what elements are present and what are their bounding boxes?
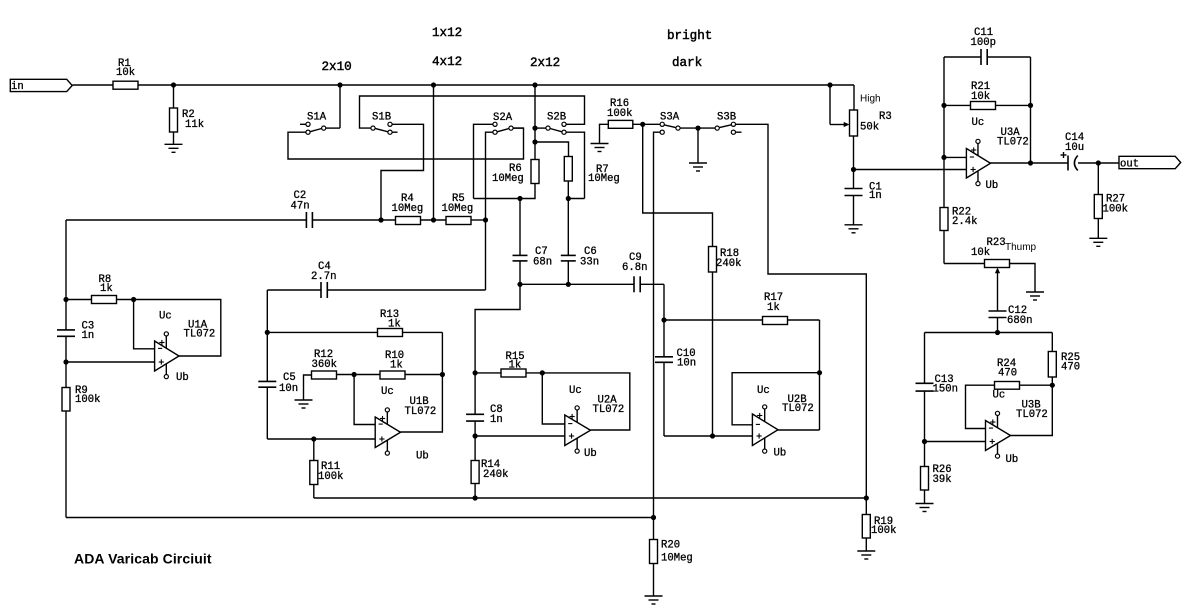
svg-text:out: out (1120, 158, 1139, 170)
resistor R21 (971, 81, 996, 110)
svg-text:2x12: 2x12 (530, 56, 560, 70)
ground under R2 (165, 144, 183, 152)
svg-text:1k: 1k (509, 360, 522, 372)
wire: left column from C2 row down to lower rail (65, 220, 67, 518)
svg-text:in: in (11, 81, 24, 93)
capacitor C13 (916, 374, 958, 396)
junction node R10 right (440, 372, 445, 377)
wire: R23 right end to ground (1010, 264, 1036, 293)
junction node R8 right (131, 297, 136, 302)
wire: C4 row (267, 290, 485, 332)
resistor R12 (312, 349, 337, 379)
svg-text:Thump: Thump (1005, 242, 1037, 253)
wire: R13/R10 right node down to U1B output (401, 332, 443, 432)
resistor R9 (62, 385, 100, 411)
wire: R13 row from left column node (267, 331, 442, 333)
junction node R1/R2 on top bus (171, 82, 176, 87)
op-amp U2A (565, 385, 624, 460)
svg-text:11k: 11k (185, 119, 204, 131)
wire: R4-R5 series links (421, 219, 486, 221)
svg-text:2x10: 2x10 (322, 60, 352, 74)
resistor R11 (310, 461, 344, 485)
svg-text:150n: 150n (933, 384, 958, 396)
resistor R16 (607, 98, 633, 128)
switch S3A (660, 112, 680, 135)
svg-text:100p: 100p (971, 37, 996, 49)
svg-text:47n: 47n (291, 200, 310, 212)
wire: S1B lower throw open stub (392, 131, 397, 133)
resistor R17 (763, 292, 788, 325)
wire: R12-R10 row, U1B inverting branch (337, 375, 443, 425)
capacitor C1 (845, 182, 882, 203)
junction node R18 bottom / U2B non-inv (710, 433, 715, 438)
ground under R20 (645, 596, 663, 604)
junction node R15 right (540, 370, 545, 375)
ground under R26 (916, 504, 934, 512)
wire: R21 leads (944, 104, 1031, 106)
wire: R19 branch to ground (865, 498, 867, 551)
wire: R23 wiper down through C12 to U3B top row (997, 273, 999, 333)
ground under R19 (857, 551, 875, 559)
wire: U1A non-inverting input row (66, 361, 155, 363)
net label bright (667, 29, 712, 43)
svg-text:6.8n: 6.8n (622, 262, 647, 274)
capacitor C6 (561, 246, 599, 269)
wire: left branch C13 down to U3B non-inverting node and R26 (925, 333, 986, 504)
capacitor C7 (513, 246, 553, 269)
resistor R1 (113, 58, 138, 89)
capacitor C8 (466, 404, 503, 426)
wire: U3B top row C12 node (925, 332, 1053, 334)
svg-text:1k: 1k (390, 360, 403, 372)
capacitor C11 (971, 27, 996, 65)
svg-text:R3: R3 (879, 111, 892, 123)
wire: R2 branch from top bus down to ground (173, 85, 175, 144)
resistor R2 (170, 108, 205, 132)
svg-text:Ub: Ub (986, 180, 999, 192)
net label 2x10 (322, 60, 352, 74)
svg-text:TL072: TL072 (405, 406, 437, 418)
resistor R5 (442, 193, 474, 225)
wire: R16 left lead to ground (600, 124, 609, 143)
svg-text:470: 470 (998, 368, 1017, 380)
svg-text:Uc: Uc (569, 385, 582, 397)
wire: S1A right contact up to top bus at node 2x10 (326, 85, 340, 128)
net label 2x12 (530, 56, 560, 70)
svg-text:S2B: S2B (547, 112, 566, 124)
svg-text:1x12: 1x12 (432, 26, 462, 40)
resistor R10 (380, 350, 405, 379)
capacitor C12 (989, 305, 1033, 327)
wire: S3A common to grounded node to S3B pole (680, 128, 715, 163)
potentiometer R3 High (844, 94, 892, 137)
wire: R7 top branch from 2x12 vertical (535, 142, 569, 157)
resistor R24 (995, 358, 1020, 389)
capacitor C4 (311, 261, 336, 298)
svg-text:High: High (860, 94, 881, 105)
wire: C2 input row from left column to R4 (66, 219, 396, 221)
svg-text:10k: 10k (971, 91, 990, 103)
svg-text:Uc: Uc (993, 390, 1006, 402)
svg-text:100k: 100k (871, 525, 896, 537)
junction node R15 left (473, 370, 478, 375)
svg-text:Ub: Ub (1006, 454, 1019, 466)
resistor R14 (471, 459, 508, 484)
junction node C7 bottom (517, 282, 522, 287)
wire: R17 right node down to U2B output and feedback loop (732, 320, 819, 430)
op-amp U1A (155, 311, 216, 385)
wire: main vertical from 4x12 node down to R4/R5 node (433, 85, 435, 220)
wire: U3A inverting input (944, 156, 966, 158)
svg-text:1n: 1n (490, 414, 503, 426)
svg-text:Ub: Ub (416, 451, 429, 463)
junction node R21 right (1028, 103, 1033, 108)
resistor R26 (921, 464, 952, 490)
wire: S2A upper throw left and down to R6 bottom row (474, 124, 493, 198)
wire: R16 right node to S3A upper throw (633, 123, 660, 125)
svg-text:360k: 360k (312, 359, 337, 371)
wire: R8 row and U1A feedback loop (66, 300, 221, 357)
junction node R3/C1 (851, 167, 856, 172)
svg-text:TL072: TL072 (997, 137, 1029, 149)
resistor R27 (1094, 194, 1128, 219)
wire: input net from in port to R1 and main top bus (73, 85, 855, 110)
svg-text:10Meg: 10Meg (392, 203, 424, 215)
wire: C7 row to R15 left node (475, 284, 520, 373)
ground under R27 (1089, 238, 1107, 246)
svg-text:68n: 68n (533, 257, 552, 269)
svg-text:240k: 240k (716, 258, 741, 270)
junction node C10 top / R17 left (661, 317, 666, 322)
svg-text:4x12: 4x12 (432, 55, 462, 69)
wire: C10 vertical and U2B non-inverting row (664, 320, 752, 436)
junction node U1A non-inv (63, 359, 68, 364)
wire: upper ground-reference rail (314, 497, 867, 499)
svg-text:1k: 1k (100, 283, 113, 295)
wire: R3 wiper feed from top bus (830, 85, 844, 125)
junction node R14 bottom on upper rail (473, 495, 478, 500)
svg-text:dark: dark (672, 56, 702, 70)
op-amp U3A (966, 117, 1028, 192)
svg-text:Ub: Ub (584, 448, 597, 460)
junction node R11 top (311, 436, 316, 441)
wire: S3A lower throw left, long vertical down to lower rail (654, 132, 661, 517)
wire: C7 vertical from R6 row down to cap bottom row (519, 199, 521, 285)
svg-text:bright: bright (667, 29, 712, 43)
wire: R12 ground lead (304, 375, 312, 400)
wire: R6 bottom to C7 top row (474, 184, 536, 199)
junction node R16/S3A (640, 122, 645, 127)
wire: S2A common right then down to switch bus (513, 127, 523, 129)
switch S2B (546, 112, 566, 135)
switch S3B (715, 112, 736, 135)
resistor R19 (862, 515, 896, 539)
junction node R6/C7 (517, 196, 522, 201)
svg-text:S2A: S2A (493, 112, 513, 124)
port in (10, 79, 72, 93)
junction node R12/R10 (352, 372, 357, 377)
junction node U3A inv (941, 155, 946, 160)
capacitor C9 (622, 252, 647, 292)
net label 4x12 (432, 55, 462, 69)
wire: R27 branch below out node (1097, 163, 1099, 238)
wire: S1A upper throw open stub (300, 123, 306, 125)
wire: R7 bottom to C6 top, stub to S2B throw line (568, 181, 584, 284)
svg-text:10n: 10n (279, 383, 298, 395)
svg-text:39k: 39k (933, 474, 952, 486)
wire: R25 branch and U3B output loop (1011, 333, 1053, 436)
svg-text:100k: 100k (607, 108, 632, 120)
wire: R3 bottom to C1 node, over to U3A non-inverting input (854, 136, 967, 189)
wire: U1A inverting input branch (134, 300, 155, 349)
ground at R12 left (295, 400, 313, 408)
svg-text:470: 470 (1061, 362, 1080, 374)
junction node U3B non-inv (922, 439, 927, 444)
junction node out / R27 (1096, 160, 1101, 165)
net label 1x12 (432, 26, 462, 40)
svg-text:10Meg: 10Meg (661, 553, 693, 565)
svg-text:10k: 10k (116, 67, 135, 79)
capacitor C5 (258, 372, 298, 395)
svg-text:S1A: S1A (307, 112, 327, 124)
wire: R17 row (664, 319, 820, 321)
op-amp U1B (375, 386, 436, 463)
svg-text:R20: R20 (661, 540, 680, 552)
switch S1A (306, 112, 327, 135)
junction node R8 left (63, 297, 68, 302)
junction node S2B pole (532, 126, 537, 131)
svg-text:10Meg: 10Meg (442, 203, 474, 215)
svg-text:TL072: TL072 (593, 404, 625, 416)
svg-text:Ub: Ub (774, 448, 787, 460)
wire: C11 feedback top row around U3A (944, 57, 1031, 208)
op-amp U2B (752, 385, 813, 460)
svg-text:1k: 1k (388, 319, 401, 331)
junction node C12 bottom (995, 330, 1000, 335)
potentiometer R23 Thump (971, 237, 1037, 273)
wire: R14 down to upper rail (474, 436, 476, 498)
junction node R4 left (378, 217, 383, 222)
junction node 2x12 on top bus (532, 82, 537, 87)
wire: S2B pole from 2x12 vertical (537, 127, 546, 129)
ground at R23 right (1026, 292, 1044, 300)
wire: R11 branch down to upper rail (313, 439, 315, 498)
wire: S1B upper throw right, down to R4 left node (381, 124, 424, 220)
ground at R16 left (591, 144, 609, 152)
wire: R18 bottom down to U2B non-inverting input row (712, 272, 714, 436)
svg-text:10k: 10k (971, 247, 990, 259)
switch S1B (371, 112, 392, 135)
capacitor C3 (57, 321, 94, 343)
wire: C8 vertical and U2A non-inverting row (475, 373, 565, 436)
title ADA Varicab Circiuit (74, 551, 212, 567)
svg-text:Uc: Uc (972, 117, 985, 129)
net label dark (672, 56, 702, 70)
svg-text:240k: 240k (483, 469, 508, 481)
wire: S2A lower throw left and down to R5 right node, on to C4 row (486, 132, 493, 290)
svg-text:Uc: Uc (159, 311, 172, 323)
wire: S1A lower throw left and down to common bus, over to S2A common (288, 128, 524, 159)
wire: S2B lower throw right and down to R7 bottom row (566, 132, 584, 198)
svg-text:Ub: Ub (176, 372, 189, 384)
svg-text:2.4k: 2.4k (952, 216, 977, 228)
junction node R4/R5 (431, 217, 436, 222)
wire: R16 node down, over and down to R18 (643, 124, 713, 246)
svg-text:2.7n: 2.7n (311, 271, 336, 283)
wire: U3A output row to C14 and out port (991, 162, 1120, 164)
svg-text:S3B: S3B (717, 112, 736, 124)
svg-text:50k: 50k (860, 122, 879, 134)
svg-text:100k: 100k (75, 394, 100, 406)
junction node R5 right (483, 217, 488, 222)
junction node 4x12 on top bus (431, 82, 436, 87)
svg-text:100k: 100k (318, 471, 343, 483)
junction node S3A common ground (695, 126, 700, 131)
resistor R15 (501, 351, 526, 377)
junction node U3A output (1028, 160, 1033, 165)
svg-text:10Meg: 10Meg (588, 173, 620, 185)
wire: R15 row and U2A feedback loop (475, 373, 630, 430)
resistor R13 (378, 309, 403, 337)
svg-text:680n: 680n (1007, 315, 1032, 327)
op-amp U3B (986, 390, 1048, 467)
junction node C8 bottom (473, 433, 478, 438)
wire: R24 leads and U3B inverting branch (966, 385, 1053, 428)
junction node C6 bottom (566, 282, 571, 287)
resistor R25 (1048, 352, 1080, 378)
svg-text:10n: 10n (677, 358, 696, 370)
junction node R20 top on lower rail (651, 515, 656, 520)
resistor R20 (650, 540, 693, 565)
ground between S3A and S3B (689, 163, 707, 171)
wire: R20 branch to ground (653, 518, 655, 597)
svg-text:10Meg: 10Meg (492, 173, 524, 185)
svg-text:TL072: TL072 (782, 403, 814, 415)
svg-text:TL072: TL072 (184, 329, 216, 341)
svg-text:S3A: S3A (660, 112, 680, 124)
resistor R4 (392, 193, 424, 225)
ground under C1 (845, 225, 863, 233)
resistor R18 (709, 247, 742, 273)
svg-text:ADA Varicab Circiuit: ADA Varicab Circiuit (74, 551, 212, 567)
junction node R24/R25 (1050, 383, 1055, 388)
junction node R13 left (265, 330, 270, 335)
wire: U2A inverting branch (542, 373, 565, 424)
svg-text:10u: 10u (1065, 142, 1084, 154)
capacitor C2 (291, 190, 313, 228)
resistor R6 (492, 160, 539, 186)
wire: cap bottom row C7-C6-C9 over to C10 branch (520, 284, 664, 320)
wire: vertical from 2x12 node down through S2B pole node to R6 (534, 85, 536, 160)
junction node R19 top on upper rail (864, 495, 869, 500)
junction node 2x10 on top bus (337, 82, 342, 87)
svg-text:1n: 1n (82, 330, 95, 342)
wire: lower rail from left column to R20 (66, 517, 654, 519)
wire: S3B lower throw open stub (736, 131, 742, 133)
svg-text:1n: 1n (869, 190, 882, 202)
resistor R22 (940, 207, 977, 231)
wire: R22 down to R23 left end (944, 231, 985, 264)
capacitor C10 (655, 348, 696, 370)
wire: C1 bottom to ground (853, 196, 855, 225)
svg-text:1k: 1k (767, 302, 780, 314)
junction node R7 top (532, 139, 537, 144)
junction node R17 feedback (817, 370, 822, 375)
resistor R8 (92, 274, 117, 304)
svg-text:S1B: S1B (372, 112, 391, 124)
svg-text:33n: 33n (580, 257, 599, 269)
capacitor C14 polarized (1061, 132, 1085, 171)
junction node R7/C6 (566, 196, 571, 201)
wire: S1B pole left, up and over to S2B upper throw (360, 96, 585, 128)
resistor R7 (564, 157, 619, 186)
svg-text:100k: 100k (1103, 204, 1128, 216)
svg-text:Uc: Uc (757, 385, 770, 397)
junction node R21 left (941, 103, 946, 108)
wire: S3B upper throw right, down, over, down to upper rail at R19 (736, 124, 867, 498)
svg-text:Uc: Uc (381, 386, 394, 398)
wire: left column C5 down to U1B non-inverting row (267, 332, 375, 439)
svg-text:TL072: TL072 (1016, 409, 1048, 421)
junction node R3 wiper feed on top bus (827, 82, 832, 87)
switch S2A (493, 112, 513, 134)
port out (1119, 156, 1181, 170)
